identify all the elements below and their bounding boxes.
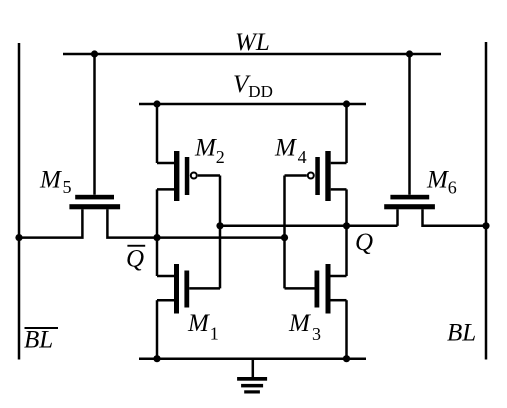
transistor M1 (left pull-down NMOS)	[157, 264, 220, 314]
svg-text:DD: DD	[248, 82, 273, 101]
svg-text:BL: BL	[447, 320, 476, 347]
node Q junction dot at BL	[482, 222, 489, 229]
wire right rail VDD to M4 source	[345, 104, 348, 163]
label BL-bar	[24, 327, 58, 354]
label VDD	[233, 71, 273, 101]
transistor M6 (right access NMOS)	[384, 54, 486, 226]
wire ground rail	[139, 357, 366, 360]
node Q junction dot at cross-coupling	[216, 222, 223, 229]
svg-text:M: M	[187, 310, 210, 337]
transistor M3 (right pull-down NMOS)	[285, 264, 347, 314]
transistor M4 (right pull-up PMOS)	[285, 151, 347, 201]
label M1	[187, 310, 219, 344]
svg-text:5: 5	[63, 177, 72, 197]
svg-text:4: 4	[298, 147, 307, 167]
VDD junction dot left	[153, 100, 160, 107]
node Q junction dot at right inverter output	[343, 222, 350, 229]
svg-text:6: 6	[448, 178, 457, 198]
label M4	[274, 135, 307, 168]
wire cross-coupling: node Q-bar down to right inverter gates	[283, 176, 286, 289]
ground junction dot right	[343, 355, 350, 362]
WL junction dot left (M5 gate)	[91, 50, 98, 57]
label M2	[194, 135, 225, 168]
svg-text:BL: BL	[24, 327, 53, 354]
wire node Q-bar horizontal to right inverter gates	[157, 236, 285, 239]
node Q-bar junction dot at left inverter output	[153, 234, 160, 241]
label M6	[426, 166, 457, 197]
wire M1 source to ground	[156, 300, 159, 359]
svg-text:M: M	[39, 167, 62, 194]
svg-text:M: M	[288, 310, 311, 337]
VDD junction dot right	[343, 100, 350, 107]
ground junction dot left	[153, 355, 160, 362]
wire node Q horizontal	[220, 225, 398, 228]
node Q-bar junction dot on BL-bar	[15, 234, 22, 241]
label Q-bar	[126, 245, 145, 273]
svg-text:M: M	[426, 166, 449, 193]
wire M3 source to ground	[345, 300, 348, 359]
label M3	[288, 310, 321, 344]
svg-text:M: M	[194, 135, 217, 162]
wire VDD rail	[139, 103, 366, 106]
wire M4 drain to M3 drain (right inverter output)	[345, 189, 348, 276]
svg-text:3: 3	[312, 324, 321, 344]
node Q-bar junction dot at cross-coupling	[281, 234, 288, 241]
svg-text:1: 1	[210, 324, 219, 344]
wire cross-coupling: node Q down to left inverter gates	[219, 176, 222, 289]
svg-text:WL: WL	[235, 29, 270, 56]
svg-text:Q: Q	[355, 229, 373, 256]
svg-text:Q: Q	[126, 246, 144, 273]
wire M2 drain to M1 drain (left inverter output)	[156, 189, 159, 276]
wire bit line BL-bar (left vertical)	[18, 43, 21, 360]
svg-text:M: M	[274, 135, 297, 162]
svg-text:2: 2	[216, 147, 225, 167]
wire WL word-line rail	[63, 53, 441, 56]
transistor M2 (left pull-up PMOS)	[157, 151, 220, 201]
label M5	[39, 167, 72, 198]
wire bit line BL (right vertical)	[485, 42, 488, 360]
wire left rail VDD to M2 source	[156, 104, 159, 163]
ground	[237, 359, 267, 394]
transistor M5 (left access NMOS)	[19, 54, 157, 238]
WL junction dot right (M6 gate)	[406, 50, 413, 57]
